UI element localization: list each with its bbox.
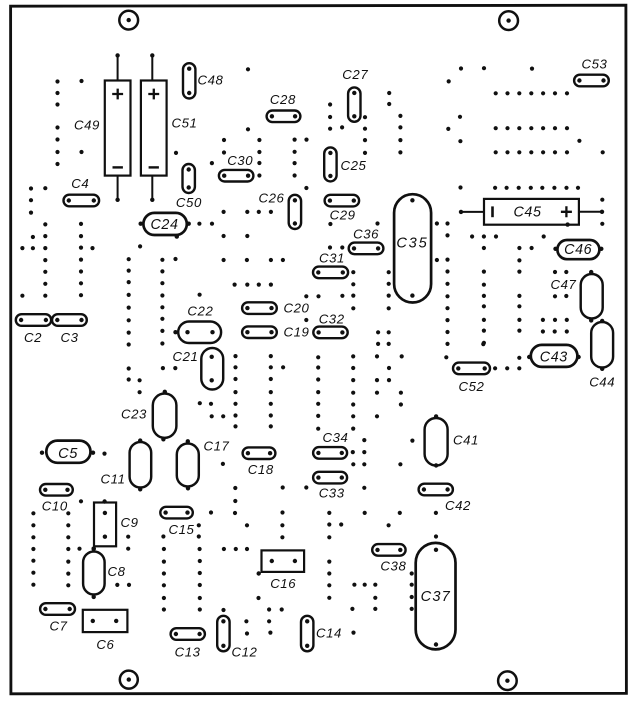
capacitor C49 (electrolytic): [74, 53, 131, 202]
svg-text:C42: C42: [445, 498, 471, 513]
svg-text:C36: C36: [353, 227, 379, 242]
svg-text:C48: C48: [198, 72, 224, 87]
svg-text:C35: C35: [396, 236, 428, 252]
svg-text:C43: C43: [540, 349, 568, 365]
svg-text:C22: C22: [187, 304, 213, 319]
svg-text:C30: C30: [227, 153, 253, 168]
capacitor C47: [551, 270, 603, 323]
capacitor C45 (axial electrolytic): [459, 199, 604, 227]
capacitor C4: [64, 176, 100, 206]
svg-text:C4: C4: [71, 176, 89, 191]
svg-text:C41: C41: [453, 433, 479, 448]
svg-text:C23: C23: [121, 407, 147, 422]
svg-text:C25: C25: [341, 158, 367, 173]
svg-text:C6: C6: [96, 637, 114, 652]
svg-text:C7: C7: [49, 619, 67, 634]
capacitor C5: [40, 441, 95, 463]
svg-text:C28: C28: [270, 92, 296, 107]
capacitor C29: [325, 195, 360, 223]
capacitor C27: [342, 67, 368, 122]
capacitor C33: [313, 472, 347, 501]
capacitor C44: [589, 319, 615, 390]
pad grid top-right: [446, 66, 605, 190]
capacitor C26: [259, 190, 302, 229]
capacitor C38: [372, 544, 406, 574]
svg-text:C16: C16: [270, 576, 296, 591]
svg-text:C3: C3: [60, 330, 78, 345]
mounting hole bottom-left: [120, 671, 138, 689]
capacitor C7: [40, 603, 75, 633]
svg-text:C47: C47: [551, 277, 577, 292]
mounting hole top-right: [499, 11, 518, 30]
svg-text:C15: C15: [169, 522, 195, 537]
capacitor C22: [173, 304, 221, 343]
pad grid left-middle: [20, 186, 142, 394]
mounting hole bottom-right: [498, 671, 517, 690]
capacitor C53: [574, 56, 609, 86]
capacitor C32: [313, 311, 347, 338]
svg-text:C13: C13: [175, 645, 201, 660]
capacitor C18: [243, 447, 276, 477]
capacitor C48: [183, 63, 224, 98]
svg-text:C10: C10: [42, 499, 68, 514]
svg-text:C50: C50: [176, 195, 202, 210]
svg-text:C34: C34: [323, 430, 349, 445]
pad grid bottom-left: [31, 499, 131, 587]
capacitor C35: [394, 194, 431, 302]
svg-text:C19: C19: [284, 325, 310, 340]
capacitor C50: [176, 164, 202, 210]
svg-text:C32: C32: [319, 311, 345, 326]
capacitor C34: [313, 430, 348, 459]
capacitor C14: [301, 616, 342, 652]
pad grid around C34-C41: [351, 438, 415, 490]
capacitor C46: [553, 240, 603, 259]
svg-text:C44: C44: [589, 374, 615, 389]
svg-text:C38: C38: [380, 559, 406, 574]
svg-text:C26: C26: [259, 190, 285, 205]
pad grid centre: [197, 210, 344, 322]
svg-text:C37: C37: [421, 589, 451, 605]
pad grid bottom-middle: [102, 452, 438, 636]
capacitor C17: [177, 439, 230, 491]
svg-text:C9: C9: [121, 515, 139, 530]
capacitor C51 (electrolytic): [141, 53, 198, 202]
svg-text:C45: C45: [513, 205, 541, 221]
capacitor C28: [267, 92, 301, 122]
mounting hole top-left: [119, 11, 138, 30]
capacitor C52: [453, 363, 490, 395]
capacitor C41: [425, 414, 479, 467]
capacitor C13: [171, 628, 205, 659]
capacitor C20: [242, 301, 309, 316]
svg-text:C2: C2: [24, 330, 42, 345]
capacitor C19: [242, 325, 309, 340]
capacitor C24: [139, 213, 191, 239]
svg-text:C8: C8: [108, 564, 126, 579]
svg-text:C46: C46: [564, 242, 592, 258]
pad grid around C35: [316, 221, 450, 430]
capacitor C30: [219, 153, 254, 181]
svg-text:C12: C12: [232, 645, 258, 660]
svg-text:C17: C17: [204, 439, 230, 454]
pad grid around C45-C47: [470, 198, 604, 371]
pad grid around C21-C23: [160, 257, 285, 429]
svg-text:C24: C24: [150, 217, 178, 233]
capacitor C6: [83, 610, 128, 652]
capacitor C9: [92, 499, 139, 551]
capacitor C11: [101, 438, 152, 491]
svg-text:C51: C51: [172, 116, 198, 131]
capacitor C8: [83, 547, 126, 600]
capacitor C25: [324, 147, 366, 181]
svg-text:C53: C53: [582, 56, 608, 71]
capacitor C15: [160, 507, 194, 537]
svg-text:C27: C27: [342, 67, 368, 82]
svg-text:C20: C20: [284, 301, 310, 316]
capacitor C43: [527, 345, 581, 367]
svg-text:C5: C5: [58, 446, 78, 462]
svg-text:C11: C11: [101, 472, 126, 487]
capacitor C16: [257, 550, 305, 591]
capacitor C37: [416, 543, 456, 650]
svg-text:C31: C31: [319, 251, 345, 266]
capacitor C42: [419, 484, 471, 513]
capacitor C3: [52, 314, 87, 345]
svg-text:C49: C49: [74, 118, 100, 133]
svg-text:C33: C33: [319, 485, 345, 500]
capacitor C2: [16, 314, 51, 345]
svg-text:C29: C29: [330, 208, 356, 223]
capacitor C36: [349, 227, 384, 255]
capacitor C21: [173, 348, 224, 390]
capacitor C23: [121, 390, 176, 442]
svg-text:C14: C14: [316, 625, 342, 640]
capacitor C31: [313, 251, 348, 279]
capacitor C10: [40, 484, 73, 514]
svg-text:C52: C52: [459, 379, 485, 394]
pad grid around C27: [328, 91, 403, 155]
pad grid top-left: [55, 67, 308, 190]
svg-text:C18: C18: [248, 462, 274, 477]
capacitor C12: [217, 616, 257, 660]
svg-text:C21: C21: [173, 349, 199, 364]
